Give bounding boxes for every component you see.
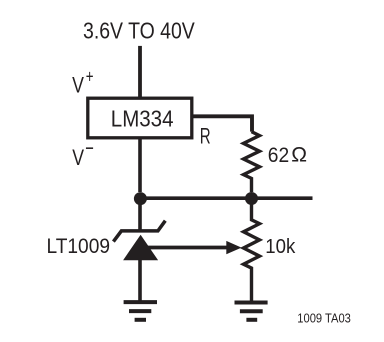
resistor R1 62ohm zigzag: [244, 132, 260, 192]
svg-text:LT1009: LT1009: [47, 234, 111, 258]
node B junction dot: [245, 192, 258, 205]
IC U1 LM334 box: [88, 98, 192, 138]
ground left: [124, 302, 157, 320]
svg-text:LM334: LM334: [111, 105, 174, 131]
svg-text:1009 TA03: 1009 TA03: [297, 311, 351, 325]
pin label V-: [72, 136, 94, 170]
potentiometer wiper arrowhead: [226, 241, 241, 254]
wire supply to LM334 top: [138, 46, 142, 98]
svg-text:3.6V TO 40V: 3.6V TO 40V: [83, 17, 195, 43]
svg-text:+: +: [86, 67, 94, 87]
potentiometer R2 10k zigzag: [244, 198, 260, 302]
svg-text:Ω: Ω: [291, 144, 307, 167]
value label 62ohm: [268, 143, 307, 167]
node A junction dot: [134, 192, 147, 205]
wire wiper arm from LT1009 to potentiometer: [146, 246, 228, 250]
ground right: [235, 303, 268, 320]
diode D1 LT1009 anode triangle: [123, 235, 158, 260]
svg-text:−: −: [85, 136, 94, 161]
wire main horizontal node A to right: [140, 196, 312, 200]
diode D1 LT1009 cathode bar with tails: [113, 221, 165, 242]
wire LM334 R pin to resistor top, with corner: [192, 116, 253, 131]
wire LT1009 anode to ground: [138, 259, 142, 302]
wire LM334 bottom to node A: [138, 137, 142, 192]
svg-text:62: 62: [268, 143, 289, 167]
pin label V+: [72, 67, 93, 98]
svg-text:R: R: [200, 123, 211, 148]
wire node A down to LT1009 cathode: [138, 198, 142, 231]
svg-text:V: V: [72, 73, 84, 98]
svg-text:10k: 10k: [265, 235, 296, 258]
svg-text:V: V: [72, 145, 84, 170]
